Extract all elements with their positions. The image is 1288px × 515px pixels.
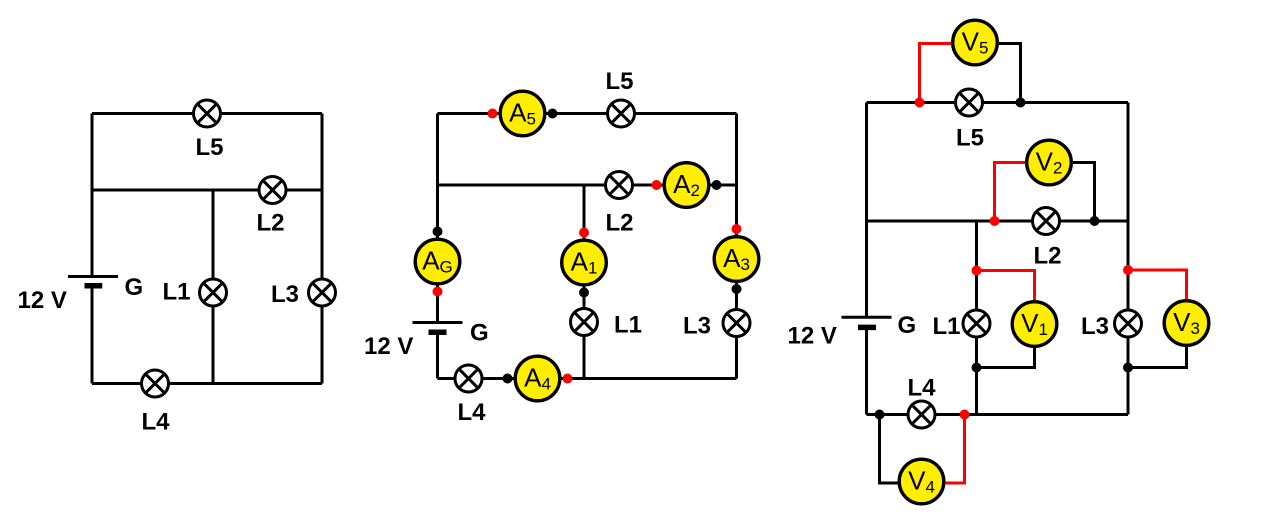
wire: V5 black lead <box>998 44 1021 103</box>
ammeter A5 <box>500 91 545 136</box>
lamp L2 (C1) <box>259 177 286 204</box>
wire: V3 black lead <box>1128 347 1187 368</box>
wire: C3 left vertical upper (top to battery +) <box>865 103 868 318</box>
wire: C3 second horizontal <box>867 220 1129 223</box>
lamp L3 (C1) <box>309 279 336 306</box>
svg-text:L1: L1 <box>614 312 642 339</box>
ammeter AG <box>415 239 460 284</box>
node: red dot of V5 on top wire <box>915 98 925 108</box>
battery G (12 V), circuit 3 <box>842 317 892 327</box>
svg-text:L4: L4 <box>907 375 936 402</box>
svg-text:G: G <box>470 320 489 347</box>
wire: C3 bottom <box>867 413 1129 416</box>
wire: V1 red lead <box>977 271 1035 301</box>
wire: C3 left vertical lower (battery - to bottom) <box>865 327 868 414</box>
node: black terminal dot of A1 <box>579 288 589 298</box>
wire: C2 left vertical upper (top to battery +) <box>436 114 439 323</box>
node: black dot of V5 on top wire <box>1016 98 1026 108</box>
battery G (12 V), circuit 1 <box>68 277 118 286</box>
node: red terminal dot of AG <box>433 287 443 297</box>
svg-text:12 V: 12 V <box>18 287 67 314</box>
ammeter A3 <box>714 237 759 282</box>
wire: V2 black lead <box>1072 163 1095 222</box>
lamp L5 (C3) <box>956 89 983 116</box>
svg-text:12 V: 12 V <box>788 323 837 350</box>
wire: C3 top <box>867 101 1129 104</box>
svg-text:L1: L1 <box>932 313 960 340</box>
wire: C1 left lower (battery - to bottom) <box>91 286 94 384</box>
lamp L1 (C3) <box>963 310 990 337</box>
node: black terminal dot of A3 <box>732 284 742 294</box>
wire: V1 black lead <box>977 348 1035 368</box>
wire: C3 right vertical <box>1127 103 1130 415</box>
node: black dot of V1 on L1 branch <box>972 363 982 373</box>
wire: C1 L1 branch vertical <box>212 190 215 384</box>
svg-text:L1: L1 <box>162 279 190 306</box>
svg-text:L4: L4 <box>141 409 170 436</box>
voltmeter V5 <box>953 20 998 65</box>
wire: C2 A1/L1 branch <box>583 185 586 379</box>
svg-text:L4: L4 <box>457 399 486 426</box>
wire: V5 red lead <box>920 44 953 103</box>
wire: V4 black lead <box>880 415 899 484</box>
node: red terminal dot of A3 <box>732 224 742 234</box>
lamp L4 (C1) <box>142 370 169 397</box>
wire: C1 bottom <box>92 382 322 385</box>
wire: C2 second horizontal <box>438 184 737 187</box>
node: red terminal dot of A5 <box>488 109 498 119</box>
wire: C1 top <box>92 112 322 115</box>
node: black terminal dot of AG <box>433 227 443 237</box>
svg-text:L5: L5 <box>956 125 984 152</box>
ammeter A1 <box>562 240 607 285</box>
lamp L1 (C2) <box>571 309 598 336</box>
node: red dot of V4 on bottom wire <box>960 410 970 420</box>
svg-text:L5: L5 <box>195 134 223 161</box>
wire: C2 left vertical lower (battery - to bottom) <box>436 332 439 378</box>
wire: C3 L1 branch <box>975 221 978 415</box>
node: red dot of V2 on second wire <box>990 216 1000 226</box>
ammeter A4 <box>515 356 560 401</box>
wire: C2 right vertical <box>735 114 738 379</box>
battery G (12 V), circuit 2 <box>413 323 463 333</box>
svg-text:G: G <box>898 312 917 339</box>
node: red terminal dot of A2 <box>652 180 662 190</box>
wire: C2 bottom <box>438 377 737 380</box>
wire: C1 right vertical <box>321 114 324 384</box>
wire: C2 top <box>438 112 737 115</box>
svg-text:12 V: 12 V <box>364 333 413 360</box>
node: black dot of V3 on right wire <box>1123 363 1133 373</box>
lamp L4 (C2) <box>455 365 482 392</box>
voltmeter V3 <box>1164 301 1209 346</box>
svg-text:L3: L3 <box>271 281 299 308</box>
node: black terminal dot of A4 <box>503 374 513 384</box>
node: black terminal dot of A2 <box>712 180 722 190</box>
voltmeter V2 <box>1027 140 1072 185</box>
svg-text:L3: L3 <box>683 313 711 340</box>
svg-text:L3: L3 <box>1081 313 1109 340</box>
svg-text:G: G <box>125 274 144 301</box>
node: red terminal dot of A1 <box>579 228 589 238</box>
svg-text:L2: L2 <box>1033 243 1061 270</box>
voltmeter V1 <box>1012 302 1057 347</box>
node: black dot of V4 on bottom wire <box>875 410 885 420</box>
ammeter A2 <box>664 163 709 208</box>
lamp L4 (C3) <box>908 401 935 428</box>
wire: C1 second horizontal <box>92 189 322 192</box>
svg-text:L5: L5 <box>605 68 633 95</box>
svg-text:L2: L2 <box>605 210 633 237</box>
lamp L5 (C2) <box>608 100 635 127</box>
wire: V2 red lead <box>995 163 1027 222</box>
node: red dot of V3 on right wire <box>1123 265 1133 275</box>
lamp L3 (C2) <box>723 310 750 337</box>
voltmeter V4 <box>899 459 944 504</box>
lamp L5 (C1) <box>194 100 221 127</box>
node: black dot of V2 on second wire <box>1090 216 1100 226</box>
wire: V4 red lead <box>946 415 965 484</box>
lamp L1 (C1) <box>200 279 227 306</box>
lamp L2 (C2) <box>606 172 633 199</box>
wire: C1 left upper (top to battery +) <box>91 114 94 277</box>
lamp L3 (C3) <box>1115 310 1142 337</box>
node: red terminal dot of A4 <box>563 374 573 384</box>
wire: V3 red lead <box>1128 270 1187 300</box>
svg-text:L2: L2 <box>256 210 284 237</box>
node: red dot of V1 on L1 branch <box>972 266 982 276</box>
node: black terminal dot of A5 <box>548 109 558 119</box>
lamp L2 (C3) <box>1033 208 1060 235</box>
